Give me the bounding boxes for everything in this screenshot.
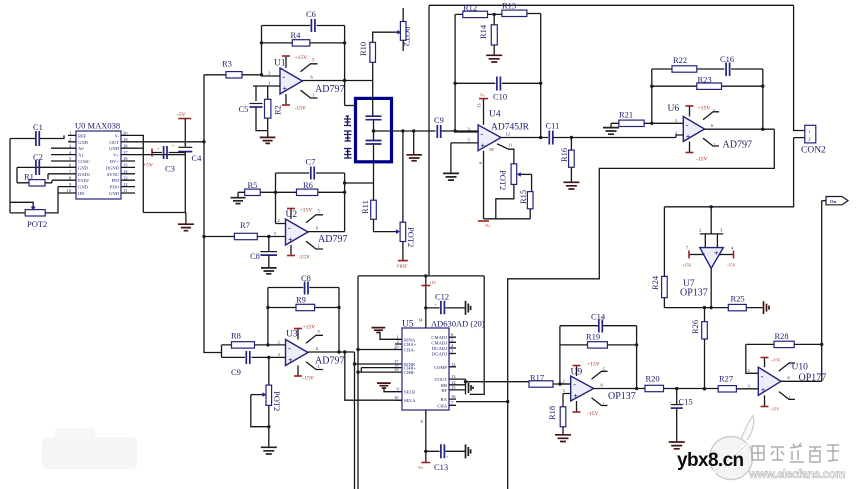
svg-text:SELA: SELA: [404, 398, 416, 403]
wire: U9 pin2 input: [560, 383, 571, 385]
svg-text:R10: R10: [358, 42, 368, 56]
svg-text:18: 18: [123, 143, 128, 148]
resistor R5: [238, 180, 276, 196]
svg-text:14: 14: [418, 318, 423, 323]
resistor R16: [559, 138, 574, 183]
svg-text:7: 7: [451, 400, 454, 405]
sensor label (pseudo CJK strokes): [344, 116, 352, 158]
svg-text:DGADJ: DGADJ: [432, 346, 447, 351]
wire: C10 loop left vertical: [454, 14, 456, 131]
svg-text:2: 2: [268, 71, 271, 76]
svg-text:VOUT: VOUT: [434, 377, 447, 382]
svg-text:R9: R9: [296, 295, 306, 305]
svg-text:AD745JR: AD745JR: [491, 123, 530, 133]
svg-text:-: -: [761, 372, 764, 381]
wire: V+ row to C4 vertical: [135, 154, 185, 156]
potentiometer POT2 (U0): [10, 187, 58, 229]
svg-text:C2: C2: [33, 152, 43, 162]
svg-text:+: +: [714, 249, 719, 258]
svg-text:IIN: IIN: [78, 191, 85, 196]
svg-text:5: 5: [312, 58, 315, 63]
wire: sensor bottom row: [345, 182, 374, 184]
resistor R20: [645, 374, 718, 392]
U3 pin5 stub: [306, 329, 323, 343]
wire: U1 feedback right vertical (down to sensor top): [344, 26, 346, 106]
svg-text:U4: U4: [489, 110, 501, 120]
svg-text:-15V: -15V: [696, 157, 708, 163]
svg-text:+15V: +15V: [587, 362, 600, 368]
svg-text:+15V: +15V: [300, 208, 313, 214]
svg-text:7: 7: [686, 246, 689, 251]
wire: U6 output: [705, 123, 775, 129]
svg-text:3: 3: [720, 228, 723, 233]
svg-text:-Vs: -Vs: [417, 465, 423, 470]
wire: U4 pin3 input: [455, 131, 478, 132]
resistor R15: [518, 190, 533, 219]
U1 pin5 stub: [301, 58, 318, 72]
op-amp U1: [274, 59, 344, 96]
U0 left pin numbers: [67, 131, 73, 194]
svg-text:GND: GND: [78, 185, 89, 190]
resistor R13: [494, 1, 541, 17]
svg-text:6: 6: [601, 383, 604, 388]
svg-text:17: 17: [123, 150, 128, 155]
svg-text:6: 6: [478, 161, 483, 164]
wire: left bus vertical: [9, 139, 11, 213]
svg-text:6: 6: [316, 346, 319, 351]
svg-text:V-: V-: [115, 133, 120, 138]
svg-text:A0: A0: [78, 146, 84, 151]
svg-text:RA: RA: [441, 397, 448, 402]
svg-text:-: -: [686, 121, 689, 130]
power -15V (U9): [573, 401, 599, 417]
potentiometer POT2 (top): [400, 8, 412, 51]
svg-text:12: 12: [451, 362, 456, 367]
wire: On-plug vertical: [821, 201, 823, 382]
wire: sensor mid: [373, 120, 375, 141]
svg-text:R28: R28: [775, 331, 789, 341]
capacitor C1: [10, 122, 64, 146]
svg-text:PDI: PDI: [112, 178, 120, 183]
ground (C15): [669, 442, 685, 449]
ground (R5 left): [231, 192, 246, 203]
U9 pin5 stub: [592, 367, 608, 380]
U5 right pin stubs: [449, 337, 456, 405]
capacitor C8 (U3 feedback): [268, 273, 339, 295]
wire: sensor bottom to junction row: [373, 144, 375, 183]
resistor R11: [360, 183, 400, 234]
svg-text:AD797: AD797: [318, 234, 347, 245]
U9 pin1 stub: [592, 398, 608, 407]
resistor R10: [358, 30, 401, 81]
U10 pin1 stub: [779, 392, 795, 400]
svg-text:13: 13: [477, 103, 482, 108]
svg-text:5: 5: [451, 337, 454, 342]
ground (below C4): [178, 213, 194, 231]
svg-text:-15V: -15V: [299, 255, 311, 261]
wire: U9 feedback right vertical: [636, 326, 638, 389]
ground (R18): [555, 435, 571, 442]
svg-text:13: 13: [451, 374, 456, 379]
IC U0 MAX038 body: [75, 121, 121, 200]
capacitor C4 (polarized): [172, 143, 202, 163]
op-amp U3: [286, 330, 345, 367]
svg-text:2: 2: [278, 218, 281, 223]
U3 pin1 stub: [306, 362, 323, 370]
svg-text:C9: C9: [231, 367, 241, 377]
wire: U5 pins 18/19 bracket: [358, 368, 395, 373]
potentiometer POT2 (U4 trim): [496, 164, 532, 219]
resistor R14: [478, 13, 497, 55]
U5 left pin stubs: [395, 339, 402, 400]
svg-text:13: 13: [123, 175, 128, 180]
svg-text:-15V: -15V: [587, 411, 599, 417]
wire: R28 to U10 pin2: [746, 344, 759, 373]
capacitor C6: [262, 9, 345, 32]
svg-text:+: +: [172, 143, 175, 148]
capacitor C8 (at U2 input): [250, 237, 277, 268]
svg-text:3: 3: [563, 388, 566, 393]
svg-text:+: +: [288, 236, 293, 245]
svg-text:9: 9: [397, 387, 400, 392]
svg-text:C9: C9: [434, 115, 444, 125]
svg-text:+15V: +15V: [771, 358, 781, 363]
wire: U3 feedback left vertical: [267, 288, 269, 345]
op-amp U4: [478, 110, 530, 151]
svg-text:10: 10: [394, 395, 399, 400]
power -15V (U3): [294, 366, 314, 382]
svg-text:C3: C3: [165, 164, 175, 174]
svg-text:DADJ: DADJ: [78, 172, 90, 177]
svg-text:4: 4: [731, 246, 734, 251]
ground (R16): [563, 182, 579, 189]
svg-text:U0 MAX038: U0 MAX038: [75, 121, 120, 131]
svg-text:NF: NF: [489, 147, 495, 152]
svg-text:GND: GND: [109, 191, 120, 196]
svg-text:+: +: [435, 302, 438, 307]
svg-text:-: -: [288, 344, 291, 353]
svg-text:15: 15: [123, 163, 128, 168]
svg-text:C13: C13: [434, 462, 448, 472]
svg-text:11: 11: [123, 188, 128, 193]
resistor R4: [262, 30, 345, 46]
svg-text:12: 12: [506, 132, 511, 137]
svg-text:+: +: [761, 386, 766, 395]
resistor R19: [560, 332, 637, 349]
svg-text:-: -: [481, 130, 484, 139]
svg-text:3: 3: [278, 352, 281, 357]
svg-text:V+: V+: [113, 153, 119, 158]
resistor R22: [652, 55, 725, 72]
capacitor C14: [560, 312, 637, 333]
ground (C8a): [261, 268, 277, 274]
wire: U6 feedback right vertical: [762, 69, 764, 129]
power Vs+ (U4, red): [477, 93, 489, 125]
wire: bus to U3 input bracket: [221, 345, 223, 358]
svg-text:COSC: COSC: [78, 159, 90, 164]
power VREF (red): [397, 261, 408, 269]
svg-text:+: +: [446, 454, 449, 459]
wire: sensor top feed: [345, 105, 357, 107]
svg-text:Vs: Vs: [480, 93, 485, 98]
svg-text:R27: R27: [719, 374, 733, 384]
wire: C4 vertical from -5V down: [184, 119, 186, 213]
svg-text:C8: C8: [301, 273, 311, 283]
svg-text:5: 5: [468, 138, 471, 143]
potentiometer POT2 (U3): [251, 357, 282, 447]
sensor capacitor top: [366, 116, 382, 120]
op-amp U10: [758, 363, 826, 396]
ground (R21 left): [603, 123, 619, 134]
svg-text:20: 20: [394, 345, 399, 350]
resistor R26: [690, 306, 707, 391]
U10 pin5 stub: [779, 362, 795, 372]
svg-text:+15V: +15V: [295, 55, 308, 61]
svg-text:19: 19: [123, 137, 128, 142]
svg-text:2: 2: [699, 228, 702, 233]
svg-text:10: 10: [67, 188, 72, 193]
svg-text:RF: RF: [441, 388, 447, 393]
node: U7 top junction: [710, 205, 713, 208]
power +15V (U6): [686, 106, 711, 117]
svg-text:CHB-: CHB-: [404, 370, 415, 375]
svg-text:R22: R22: [673, 55, 687, 65]
capacitor C7: [276, 157, 345, 180]
svg-text:20: 20: [123, 131, 128, 136]
U6 pin5 stub: [703, 109, 719, 120]
svg-text:+: +: [669, 400, 672, 405]
power +15V (U3): [294, 325, 315, 340]
wire: U1 pin3 input: [253, 85, 280, 87]
ground (C5/R2): [260, 137, 276, 143]
U5 right pin numbers: [451, 332, 456, 405]
wire: DADJ stub down to R1 row: [47, 174, 49, 180]
svg-text:15: 15: [451, 385, 456, 390]
power -15V (U10): [761, 395, 780, 411]
svg-text:3: 3: [274, 231, 277, 236]
capacitor C12: [424, 292, 465, 315]
svg-text:U1: U1: [274, 59, 286, 69]
capacitor C16: [720, 54, 763, 76]
svg-text:ybx8.cn: ybx8.cn: [677, 450, 744, 471]
svg-text:DV+: DV+: [110, 159, 120, 164]
svg-text:R13: R13: [502, 1, 516, 11]
svg-text:16: 16: [451, 394, 456, 399]
svg-text:C12: C12: [435, 292, 449, 302]
ground (U5 RB/RF, sideways): [469, 383, 474, 393]
svg-text:GND: GND: [109, 146, 120, 151]
ground (U5 SELB, maroon flat): [377, 383, 395, 392]
svg-text:C5: C5: [239, 104, 249, 114]
wire: AD630 pin16 row: [456, 401, 508, 403]
svg-text:R19: R19: [586, 332, 600, 342]
resistor R23: [652, 75, 763, 90]
svg-text:-: -: [702, 249, 705, 258]
svg-text:3: 3: [451, 349, 454, 354]
U5 left pin names: [404, 337, 417, 403]
op-amp U2: [286, 210, 348, 245]
U0 right pin stubs: [121, 135, 135, 193]
svg-text:R4: R4: [291, 30, 302, 40]
svg-text:C4: C4: [192, 153, 203, 163]
ground (R14): [486, 55, 502, 62]
svg-text:CMADJ: CMADJ: [431, 340, 447, 345]
power +15V (U7, left): [682, 246, 704, 268]
svg-text:-: -: [573, 380, 576, 389]
svg-text:-15V: -15V: [727, 263, 736, 268]
resistor R6: [276, 180, 345, 196]
node: bus/R7 junction: [202, 235, 205, 238]
svg-text:R24: R24: [650, 275, 660, 290]
wire: +15 bus vertical: [428, 5, 430, 276]
power -15V (U1, red): [282, 94, 306, 112]
capacitor C9 (U3 input): [222, 351, 286, 377]
svg-text:www.elecfans.com: www.elecfans.com: [748, 469, 845, 481]
resistor R27: [718, 374, 758, 393]
wire: U2 pin2 input: [276, 223, 286, 225]
U7 input bracket: [699, 207, 723, 248]
svg-text:4: 4: [451, 343, 454, 348]
U1 pin1 stub: [301, 90, 318, 98]
wire: C10 loop right vertical: [540, 14, 542, 138]
svg-text:R26: R26: [690, 320, 700, 334]
wire: bottom run V- bus to ground: [143, 212, 186, 214]
svg-text:6: 6: [711, 123, 714, 128]
wire: U1 feedback left vertical: [261, 26, 263, 75]
wire: U6 output to AD630 (down-left): [508, 129, 775, 489]
svg-text:SYNC: SYNC: [107, 172, 119, 177]
resistor R7: [204, 220, 286, 240]
svg-text:+5V: +5V: [143, 163, 153, 169]
watermark CJK brand (pseudo glyph strokes): [752, 443, 839, 462]
wire: main signal bus vertical: [204, 75, 222, 353]
wire: U9 feedback left vertical: [559, 326, 561, 384]
power +15V (U9): [573, 362, 600, 377]
svg-text:C8: C8: [250, 251, 260, 261]
wire: sensor middle tap to C9: [374, 130, 479, 132]
svg-text:R18: R18: [547, 406, 557, 420]
ground (U5 pin1, maroon flat): [372, 328, 395, 340]
svg-text:R6: R6: [303, 180, 313, 190]
svg-text:U6: U6: [668, 104, 680, 114]
U2 pin1 stub: [306, 241, 323, 249]
svg-text:6: 6: [311, 75, 314, 80]
connector CON2: [664, 5, 826, 207]
svg-text:DGADJ: DGADJ: [432, 352, 447, 357]
svg-text:REF: REF: [78, 133, 87, 138]
wire: C7 feedback left vertical: [275, 173, 277, 224]
svg-text:+: +: [283, 85, 288, 94]
power +15V (U2): [287, 208, 312, 220]
svg-text:+15V: +15V: [682, 263, 692, 268]
sensor capacitor bottom: [366, 141, 382, 145]
svg-text:C11: C11: [546, 121, 560, 131]
ground (POT2 U3): [261, 447, 277, 454]
wire: +15 top rail of AD630 box: [358, 275, 484, 277]
wire: U9 output row: [594, 383, 645, 389]
capacitor C5: [239, 86, 268, 131]
svg-text:R15: R15: [518, 190, 528, 204]
U5 VOUT bracket: [456, 379, 466, 394]
faint residual watermark (bottom-left): [42, 437, 137, 469]
op-amp U6: [668, 104, 752, 151]
svg-text:R3: R3: [222, 59, 232, 69]
svg-text:C15: C15: [679, 397, 693, 407]
wire: VOUT to R17: [466, 381, 530, 383]
svg-text:+15: +15: [429, 280, 436, 285]
power -15V (U2): [287, 245, 310, 261]
resistor R12: [455, 3, 494, 18]
svg-text:3: 3: [268, 81, 271, 86]
power +5V (red) and capacitor C3: [143, 146, 185, 174]
svg-text:8: 8: [421, 419, 424, 424]
svg-text:5: 5: [713, 109, 716, 114]
svg-text:C10: C10: [493, 92, 507, 102]
U5 right pin names: [431, 335, 447, 408]
svg-text:+15V: +15V: [698, 106, 711, 112]
svg-text:AD797: AD797: [315, 84, 344, 95]
resistor R25: [711, 294, 762, 311]
svg-text:C6: C6: [306, 9, 316, 19]
svg-text:R16: R16: [559, 148, 569, 162]
power +15 tick (red) on C12 stub: [421, 274, 435, 328]
node: feedback/input junction: [260, 73, 263, 76]
wire: AD630 box left vertical: [357, 276, 359, 489]
op-amp U7 (inverted): [680, 248, 723, 299]
svg-text:OUT: OUT: [110, 140, 120, 145]
svg-text:AD797: AD797: [723, 140, 752, 151]
svg-text:3: 3: [748, 383, 751, 388]
U2 pin5 stub: [306, 209, 323, 223]
svg-text:CHA+: CHA+: [404, 342, 417, 347]
svg-text:2: 2: [748, 368, 751, 373]
wire: AD630 box right vertical: [470, 276, 485, 395]
svg-text:On: On: [830, 199, 837, 204]
wire: U4 output row: [501, 137, 548, 139]
svg-text:POT2: POT2: [498, 170, 508, 190]
resistor R8: [222, 331, 286, 349]
svg-text:C16: C16: [720, 54, 734, 64]
svg-text:POT2: POT2: [27, 219, 47, 229]
svg-text:POT2: POT2: [272, 391, 282, 411]
wire: sensor-bottom / U2 output vertical: [344, 173, 346, 232]
svg-text:GND: GND: [78, 165, 89, 170]
svg-text:R8: R8: [231, 331, 241, 341]
resistor R28: [746, 331, 822, 348]
svg-text:CHA: CHA: [437, 403, 447, 408]
svg-text:-15V: -15V: [771, 407, 780, 412]
U5 left pin numbers: [394, 334, 400, 400]
U0 left pin names: [78, 133, 90, 196]
resistor R9: [268, 295, 339, 311]
resistor R17: [529, 373, 571, 388]
svg-text:+: +: [686, 133, 691, 142]
power -15V (U7, right): [719, 246, 736, 268]
connector On plug: [822, 197, 848, 205]
svg-text:16: 16: [123, 156, 128, 161]
svg-text:5: 5: [318, 209, 321, 214]
svg-text:5: 5: [318, 329, 321, 334]
svg-text:+: +: [481, 142, 486, 151]
svg-text:U10: U10: [792, 363, 809, 373]
svg-text:R2: R2: [273, 105, 283, 115]
svg-text:CON2: CON2: [801, 146, 826, 156]
potentiometer POT2 (mid): [400, 131, 416, 260]
U4 pin11 trim stub: [489, 143, 514, 164]
wire: RINB row: [355, 363, 396, 365]
resistor R2: [265, 86, 283, 137]
svg-text:-: -: [288, 224, 291, 233]
